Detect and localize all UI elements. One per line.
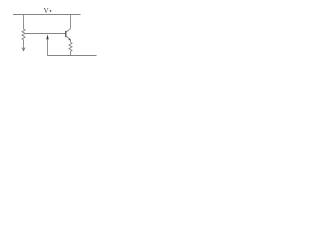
- resistor R2 emitter: [69, 42, 72, 51]
- wire bottom rail: [48, 55, 97, 57]
- wire base node: [25, 33, 66, 35]
- current source I1 up arrow: [46, 34, 48, 39]
- wire R1 bottom lead: [23, 40, 25, 50]
- wire emitter lead: [70, 40, 72, 42]
- wire R2 bottom lead: [70, 51, 72, 55]
- wire top rail V+: [13, 14, 81, 16]
- wire collector to rail: [70, 15, 72, 29]
- wire left supply drop: [23, 15, 25, 30]
- net label V+: [44, 8, 52, 15]
- resistor R1: [22, 29, 25, 40]
- svg-text:V: V: [44, 8, 49, 15]
- down arrow to negative supply: [22, 48, 25, 51]
- transistor Q1: [66, 29, 71, 41]
- wire current source to bottom rail: [47, 40, 50, 56]
